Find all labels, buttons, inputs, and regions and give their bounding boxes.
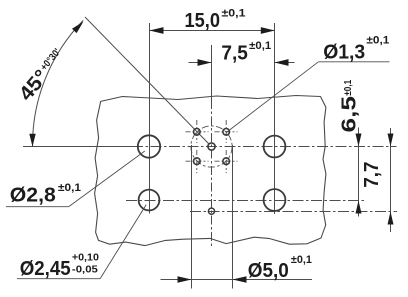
svg-text:±0,1: ±0,1 xyxy=(343,79,354,95)
dimension 5,0 right arrow xyxy=(233,276,247,282)
svg-text:±0,1: ±0,1 xyxy=(58,182,81,194)
svg-text:6,5: 6,5 xyxy=(338,96,360,133)
svg-text:±0,1: ±0,1 xyxy=(366,35,389,47)
label dia 1,3 underline xyxy=(318,61,389,63)
45 degree construction line through upper-left small hole xyxy=(85,17,209,144)
label dia 1,3 leader to upper-right small hole xyxy=(226,62,318,133)
dimension 15,0 right arrow xyxy=(261,27,275,34)
small hole dia 1,3 upper right of pattern xyxy=(223,129,230,136)
svg-text:Ø2,8: Ø2,8 xyxy=(10,185,56,207)
extension/centerline vertical right column x=274.5 xyxy=(274,23,276,214)
small hole dia 1,3 lower left of pattern xyxy=(194,158,201,165)
extension/centerline vertical left column x=149.5 xyxy=(149,23,151,214)
svg-text:7,5: 7,5 xyxy=(221,43,248,65)
svg-text:7,7: 7,7 xyxy=(361,162,383,188)
dimension 7,5 line right tail xyxy=(275,62,295,64)
extension line right tangent of pitch circle x=232.5 xyxy=(232,145,234,289)
centerline horizontal top row y=146.5 dash-dot xyxy=(132,146,397,148)
svg-text:15,0: 15,0 xyxy=(185,10,221,32)
svg-text:Ø1,3: Ø1,3 xyxy=(323,42,365,64)
svg-text:Ø5,0: Ø5,0 xyxy=(248,260,289,282)
dimension 7,5 right arrow xyxy=(275,59,289,66)
small hole center of pattern xyxy=(208,143,215,150)
centerline horizontal small-hole row y=211.5 dash-dot xyxy=(190,211,397,213)
dimension 7,5 left arrow xyxy=(198,59,212,66)
plate outline (broken-out sheet with wavy break edges) xyxy=(95,96,326,246)
extension line vertical center column upper part x=211.5 xyxy=(211,45,213,100)
dimension 15,0 left arrow xyxy=(150,27,164,34)
dimension 7,7 bottom arrow xyxy=(388,212,394,225)
angular dimension top arrow xyxy=(72,22,83,33)
dimension 7,7 top arrow xyxy=(388,134,394,147)
small hole dia 1,3 upper left of pattern xyxy=(194,129,201,136)
dimension 5,0 left arrow xyxy=(178,276,192,282)
angle text 45 deg +0deg30min rotated xyxy=(15,45,70,105)
svg-text:±0,1: ±0,1 xyxy=(222,7,246,19)
dimension 7,5 line left tail xyxy=(189,62,212,64)
dimension 6,5 top arrow xyxy=(356,134,362,147)
dimension 15,0 line xyxy=(150,30,275,32)
svg-text:+0,10: +0,10 xyxy=(72,252,99,264)
svg-text:Ø2,45: Ø2,45 xyxy=(20,258,71,280)
label dia 2,8 leader to upper-left hole xyxy=(69,151,145,207)
small hole dia 1,3 lower right of pattern xyxy=(223,158,230,165)
label dia 2,8 underline xyxy=(6,206,69,208)
angular dimension arc 45 degrees xyxy=(32,20,83,146)
centerline vertical center column dash-dot x=211.5 xyxy=(211,100,213,247)
hole dia 2,45 lower left xyxy=(139,190,160,211)
label dia 2,45 underline xyxy=(17,278,100,280)
svg-text:±0,1: ±0,1 xyxy=(249,40,271,52)
pitch circle dia 5,0 dash-dot xyxy=(191,126,232,167)
dimension line vertical 7,7 x=390.5 xyxy=(390,128,392,232)
svg-text:±0,1: ±0,1 xyxy=(291,254,312,266)
centerline horizontal top row y=146.5 (angle reference extension) xyxy=(23,146,132,148)
dimension 5,0 line xyxy=(161,279,313,281)
crosshair ticks of the four corner holes xyxy=(186,120,238,173)
extension line left tangent of pitch circle x=191.5 xyxy=(191,145,193,289)
small hole below pattern xyxy=(208,208,214,214)
hole dia 2,8 upper left xyxy=(138,135,160,157)
hole upper right xyxy=(264,136,286,158)
dimension 6,5 bottom arrow xyxy=(356,201,362,214)
dimension line vertical 6,5 x=358.5 xyxy=(358,128,360,217)
label dia 2,45 leader to lower-left hole xyxy=(100,205,146,279)
centerline horizontal bottom row y=200.5 dash-dot xyxy=(126,200,366,202)
svg-text:-0,05: -0,05 xyxy=(72,264,98,276)
hole lower right xyxy=(264,189,286,211)
angular dimension bottom arrow xyxy=(29,134,35,147)
